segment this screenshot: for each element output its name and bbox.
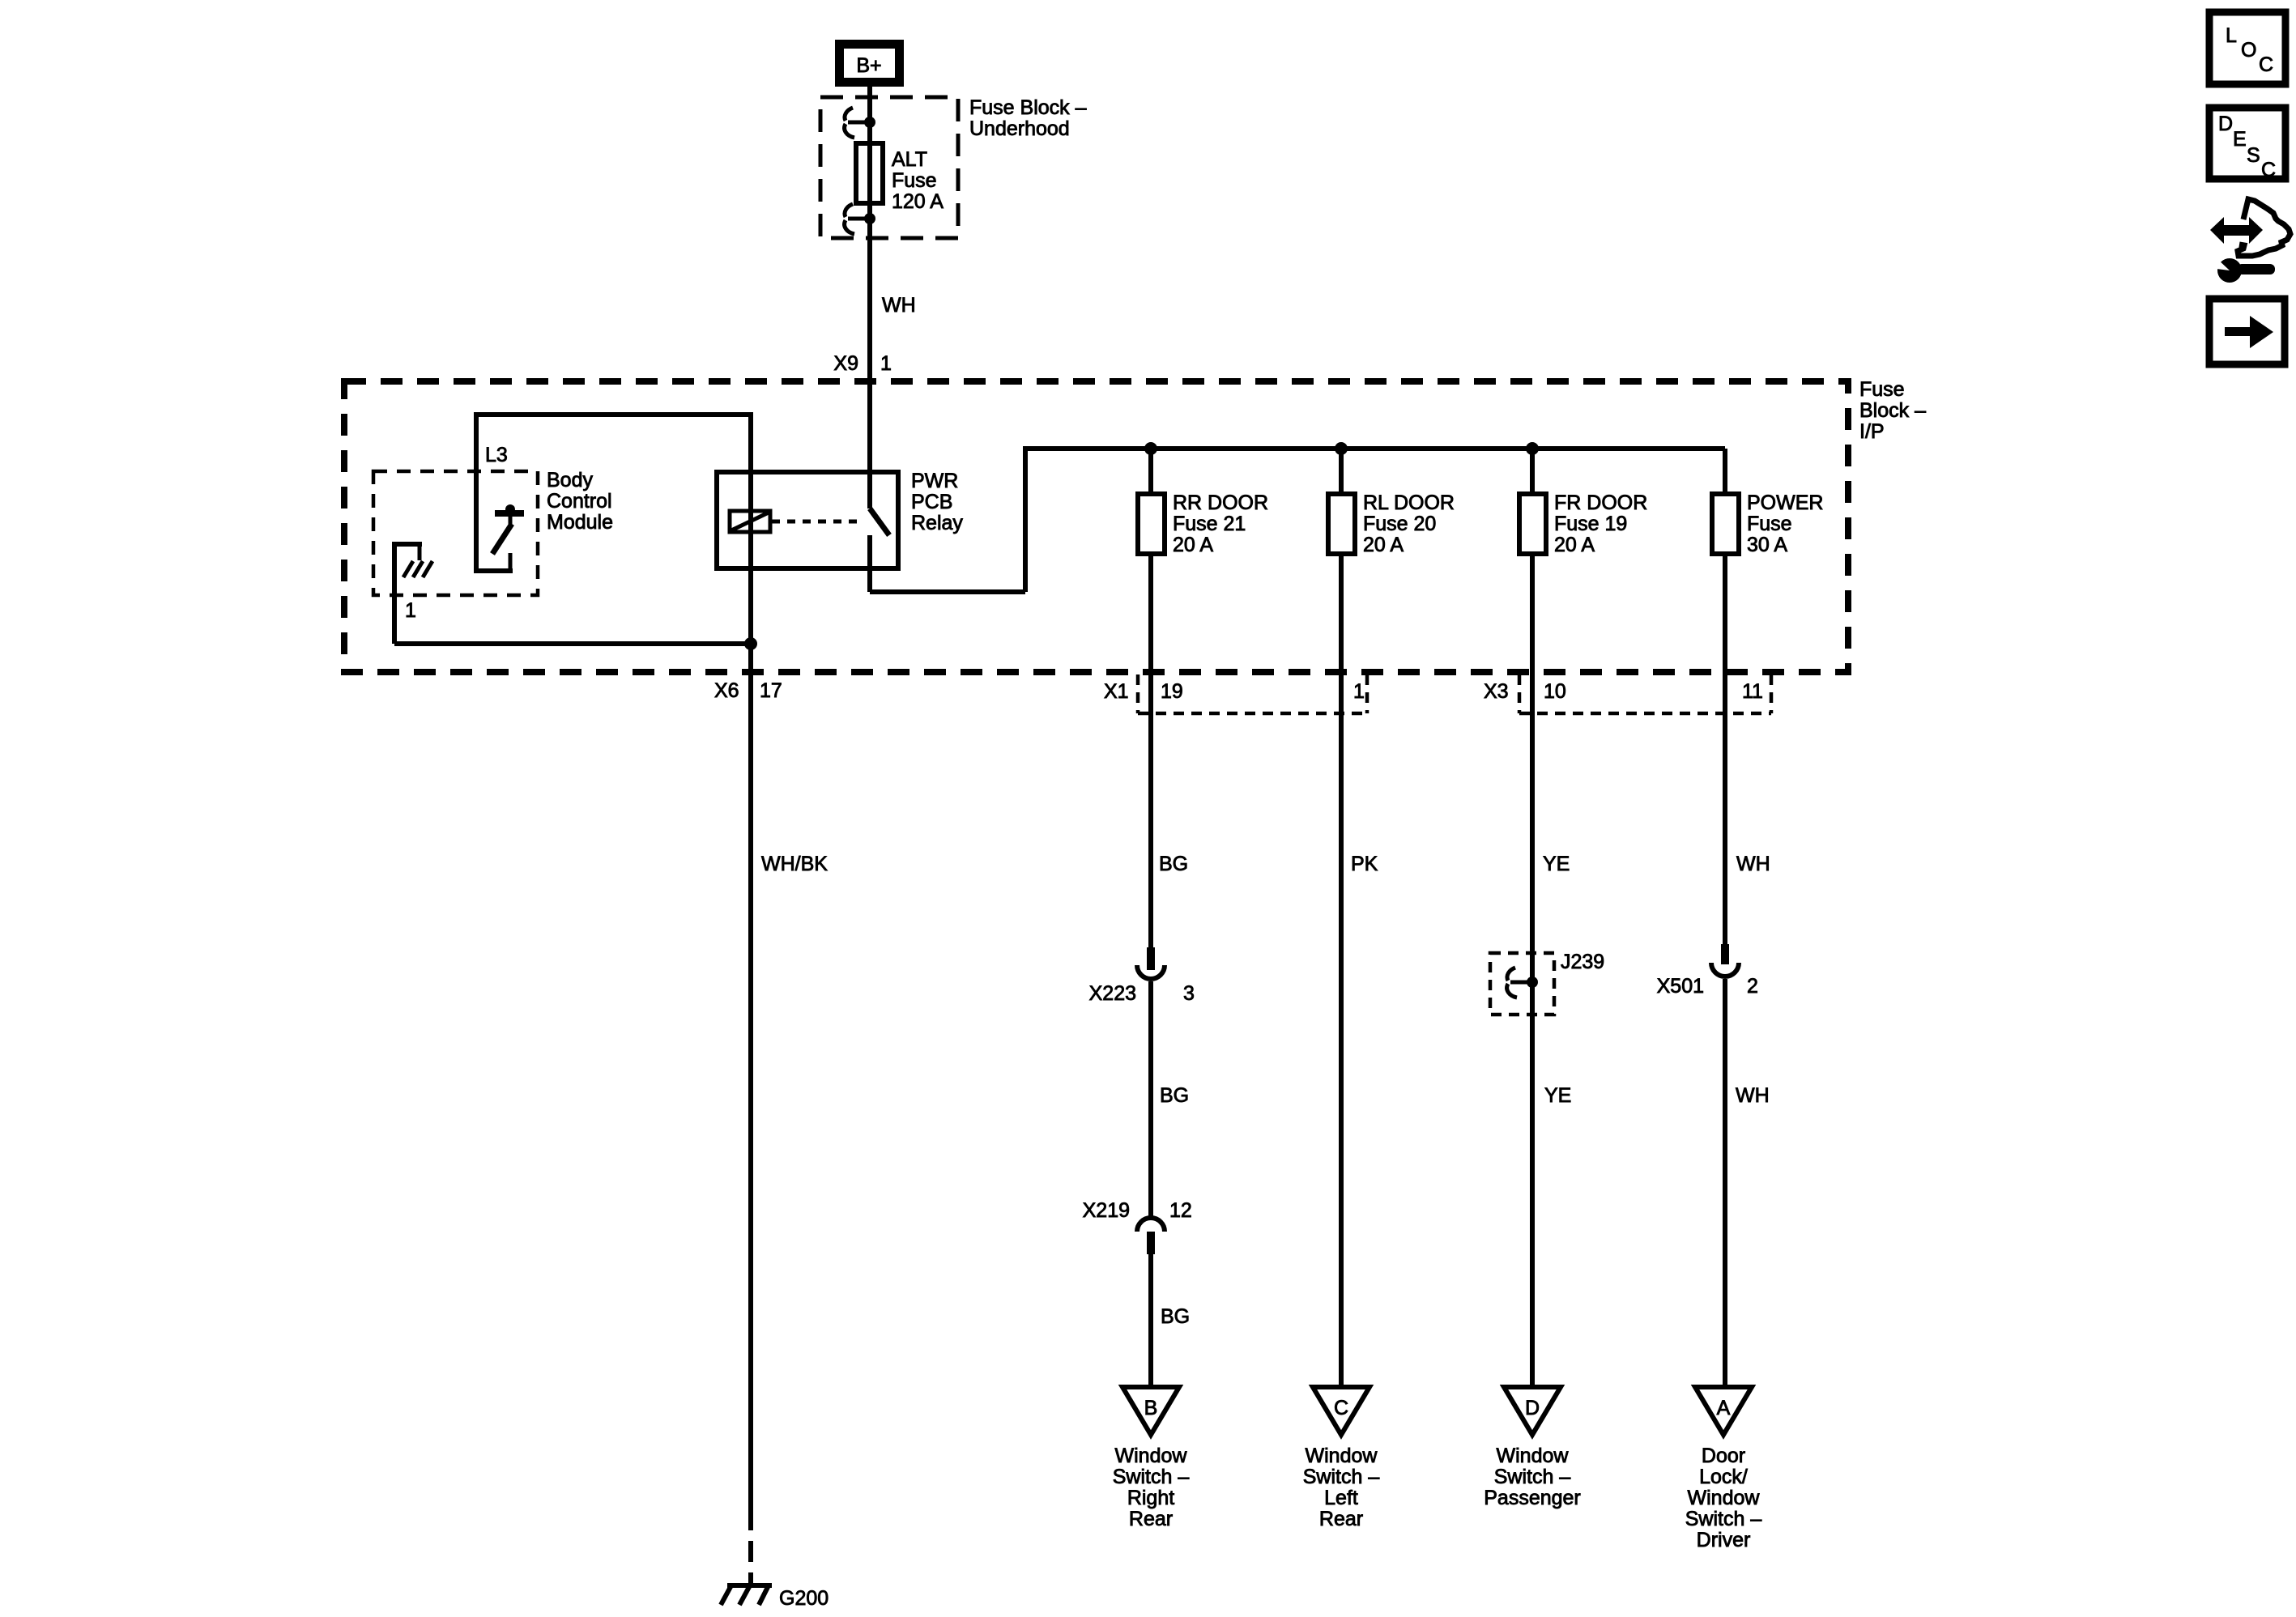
svg-text:WH: WH bbox=[1736, 853, 1770, 875]
svg-text:10: 10 bbox=[1544, 680, 1566, 703]
svg-text:X3: X3 bbox=[1484, 680, 1509, 703]
svg-text:O: O bbox=[2241, 39, 2256, 62]
svg-text:PCB: PCB bbox=[911, 491, 952, 513]
svg-text:X501: X501 bbox=[1657, 975, 1704, 998]
svg-text:Switch –: Switch – bbox=[1113, 1466, 1190, 1488]
svg-text:Fuse: Fuse bbox=[892, 169, 937, 192]
svg-text:3: 3 bbox=[1183, 982, 1195, 1005]
svg-text:Left: Left bbox=[1324, 1487, 1358, 1509]
svg-text:A: A bbox=[1717, 1397, 1731, 1419]
svg-text:I/P: I/P bbox=[1859, 420, 1885, 443]
svg-text:Lock/: Lock/ bbox=[1699, 1466, 1748, 1488]
svg-text:YE: YE bbox=[1544, 1084, 1571, 1107]
svg-text:17: 17 bbox=[760, 679, 782, 702]
svg-text:YE: YE bbox=[1543, 853, 1570, 875]
svg-text:S: S bbox=[2247, 144, 2260, 167]
svg-text:BG: BG bbox=[1159, 853, 1188, 875]
svg-text:Fuse Block –: Fuse Block – bbox=[969, 96, 1087, 119]
svg-text:Window: Window bbox=[1306, 1445, 1378, 1467]
svg-text:Module: Module bbox=[547, 511, 613, 534]
svg-text:Fuse 20: Fuse 20 bbox=[1363, 513, 1436, 535]
svg-text:PK: PK bbox=[1351, 853, 1378, 875]
svg-text:C: C bbox=[2259, 53, 2273, 76]
svg-text:BG: BG bbox=[1161, 1305, 1190, 1328]
svg-text:Fuse 19: Fuse 19 bbox=[1554, 513, 1627, 535]
svg-text:Underhood: Underhood bbox=[969, 117, 1070, 140]
svg-text:2: 2 bbox=[1747, 975, 1758, 998]
svg-text:Door: Door bbox=[1702, 1445, 1745, 1467]
svg-text:FR DOOR: FR DOOR bbox=[1554, 491, 1647, 514]
svg-text:Driver: Driver bbox=[1697, 1529, 1751, 1551]
svg-text:WH: WH bbox=[1736, 1084, 1770, 1107]
svg-text:Fuse: Fuse bbox=[1747, 513, 1792, 535]
svg-text:D: D bbox=[1525, 1397, 1540, 1419]
svg-text:Right: Right bbox=[1127, 1487, 1174, 1509]
svg-text:19: 19 bbox=[1161, 680, 1183, 703]
svg-text:ALT: ALT bbox=[892, 148, 927, 171]
svg-text:12: 12 bbox=[1169, 1199, 1192, 1222]
svg-text:B+: B+ bbox=[856, 54, 881, 77]
svg-text:RR DOOR: RR DOOR bbox=[1173, 491, 1268, 514]
svg-text:11: 11 bbox=[1742, 680, 1763, 703]
svg-text:X223: X223 bbox=[1089, 982, 1136, 1005]
svg-text:WH: WH bbox=[882, 294, 916, 317]
svg-text:X219: X219 bbox=[1083, 1199, 1130, 1222]
svg-text:20 A: 20 A bbox=[1554, 534, 1595, 556]
svg-text:120 A: 120 A bbox=[892, 190, 944, 213]
svg-text:D: D bbox=[2218, 113, 2233, 135]
svg-text:Switch –: Switch – bbox=[1685, 1508, 1762, 1530]
svg-text:20 A: 20 A bbox=[1173, 534, 1213, 556]
svg-text:BG: BG bbox=[1160, 1084, 1189, 1107]
svg-text:C: C bbox=[1334, 1397, 1348, 1419]
svg-text:1: 1 bbox=[880, 352, 892, 375]
svg-text:X6: X6 bbox=[714, 679, 739, 702]
svg-text:Fuse 21: Fuse 21 bbox=[1173, 513, 1246, 535]
svg-text:1: 1 bbox=[1353, 680, 1365, 703]
svg-text:X9: X9 bbox=[833, 352, 858, 375]
svg-text:PWR: PWR bbox=[911, 470, 958, 492]
svg-text:C: C bbox=[2261, 159, 2276, 181]
svg-text:30 A: 30 A bbox=[1747, 534, 1787, 556]
svg-text:20 A: 20 A bbox=[1363, 534, 1404, 556]
svg-text:1: 1 bbox=[405, 599, 416, 622]
svg-text:Fuse: Fuse bbox=[1859, 378, 1905, 401]
svg-text:B: B bbox=[1144, 1397, 1158, 1419]
svg-text:Rear: Rear bbox=[1319, 1508, 1363, 1530]
svg-text:G200: G200 bbox=[779, 1587, 829, 1610]
svg-text:Block –: Block – bbox=[1859, 399, 1926, 422]
svg-text:Control: Control bbox=[547, 490, 612, 513]
svg-text:Switch –: Switch – bbox=[1494, 1466, 1571, 1488]
svg-text:POWER: POWER bbox=[1747, 491, 1823, 514]
svg-text:WH/BK: WH/BK bbox=[761, 853, 828, 875]
svg-text:Window: Window bbox=[1115, 1445, 1188, 1467]
svg-text:E: E bbox=[2233, 128, 2247, 151]
svg-text:Window: Window bbox=[1688, 1487, 1761, 1509]
svg-text:Passenger: Passenger bbox=[1484, 1487, 1581, 1509]
svg-text:RL DOOR: RL DOOR bbox=[1363, 491, 1455, 514]
svg-text:Switch –: Switch – bbox=[1303, 1466, 1380, 1488]
svg-text:L: L bbox=[2226, 24, 2237, 47]
svg-text:L3: L3 bbox=[485, 444, 508, 466]
svg-text:Body: Body bbox=[547, 469, 593, 491]
svg-text:Relay: Relay bbox=[911, 512, 963, 534]
svg-text:X1: X1 bbox=[1104, 680, 1129, 703]
svg-text:Window: Window bbox=[1497, 1445, 1570, 1467]
svg-text:J239: J239 bbox=[1561, 951, 1604, 973]
svg-text:Rear: Rear bbox=[1129, 1508, 1173, 1530]
